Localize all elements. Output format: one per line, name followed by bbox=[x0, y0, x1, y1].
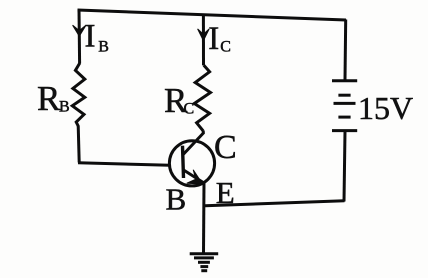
resistor RC bbox=[194, 65, 210, 131]
wire middle vertical top bbox=[202, 14, 205, 65]
svg-text:I: I bbox=[208, 21, 219, 57]
label IB bbox=[85, 19, 109, 56]
ground bar 5 bbox=[201, 269, 207, 272]
transistor Q1 emitter arrowhead bbox=[187, 170, 203, 184]
label E emitter bbox=[216, 175, 235, 210]
wire emitter vertical bbox=[202, 183, 206, 253]
arrow IC bbox=[198, 29, 210, 41]
wire right vertical bottom bbox=[344, 132, 345, 202]
battery B1 plate long top bbox=[332, 79, 357, 82]
label IC bbox=[208, 21, 231, 57]
ground bar 3 bbox=[198, 261, 210, 264]
label 15V bbox=[358, 90, 413, 126]
transistor Q1 circle bbox=[169, 141, 214, 186]
svg-text:B: B bbox=[166, 182, 187, 217]
resistor RB bbox=[72, 63, 85, 126]
svg-text:I: I bbox=[85, 19, 96, 55]
ground bar 2 bbox=[194, 256, 214, 259]
transistor Q1 collector lead bbox=[183, 133, 203, 155]
svg-text:B: B bbox=[98, 38, 109, 55]
wire collector stub bbox=[202, 131, 205, 135]
label RC bbox=[164, 81, 194, 120]
wire top horizontal bbox=[78, 10, 347, 20]
transistor Q1 emitter lead bbox=[183, 170, 204, 184]
svg-text:15V: 15V bbox=[358, 90, 413, 126]
wire left vertical bottom bbox=[78, 126, 79, 163]
svg-text:C: C bbox=[184, 100, 195, 117]
label B base bbox=[166, 182, 187, 217]
battery B1 plate long middle bbox=[334, 102, 356, 105]
svg-text:C: C bbox=[220, 38, 231, 55]
label RB bbox=[37, 79, 70, 118]
ground bar 1 bbox=[190, 252, 219, 255]
wire base horizontal bbox=[78, 163, 170, 165]
wire bottom horizontal bbox=[205, 201, 345, 206]
battery B1 plate long bottom bbox=[332, 129, 357, 132]
wire left vertical top bbox=[78, 9, 82, 63]
battery B1 plate short 1 bbox=[338, 94, 350, 97]
transistor Q1 base bar bbox=[183, 146, 184, 178]
svg-text:R: R bbox=[37, 79, 61, 118]
svg-text:B: B bbox=[59, 99, 70, 116]
svg-text:C: C bbox=[214, 129, 237, 166]
ground bar 4 bbox=[200, 265, 208, 268]
label C collector bbox=[214, 129, 237, 166]
wire right vertical top (battery feed) bbox=[344, 20, 348, 80]
battery B1 plate short 2 bbox=[338, 116, 350, 119]
arrow IB bbox=[73, 25, 86, 36]
